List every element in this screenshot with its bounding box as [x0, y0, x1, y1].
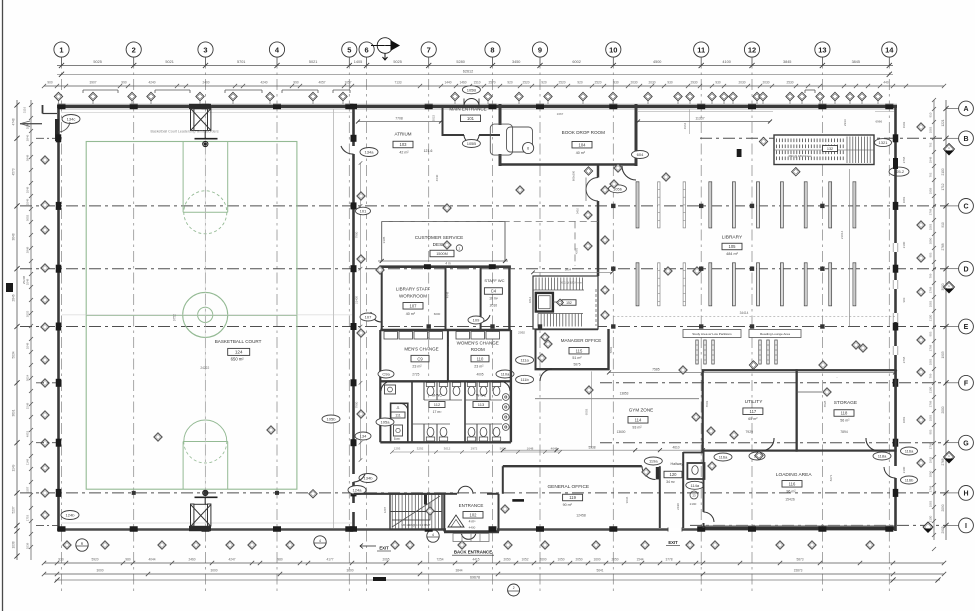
svg-text:111: 111	[395, 414, 400, 418]
svg-text:BACK ENTRANCE: BACK ENTRANCE	[454, 550, 492, 555]
svg-text:1712: 1712	[941, 183, 945, 190]
loading right door	[894, 466, 897, 478]
svg-text:3024: 3024	[26, 374, 30, 381]
svg-text:5021: 5021	[309, 60, 317, 64]
svg-text:2065: 2065	[382, 557, 389, 561]
svg-text:3012: 3012	[444, 447, 451, 451]
customer service desk outline	[382, 220, 505, 222]
svg-text:5701: 5701	[237, 60, 245, 64]
back entrance double door	[461, 532, 469, 540]
svg-text:7133: 7133	[394, 81, 401, 85]
svg-text:BOOK DROP ROOM: BOOK DROP ROOM	[562, 130, 605, 135]
svg-text:-: -	[837, 375, 838, 379]
outer wall top	[57, 105, 897, 108]
svg-text:1293: 1293	[394, 447, 401, 451]
svg-text:115: 115	[576, 348, 583, 353]
svg-text:H: H	[963, 491, 968, 498]
svg-text:2333: 2333	[843, 119, 847, 126]
grid bubbles top	[54, 42, 69, 57]
svg-text:4100: 4100	[722, 60, 730, 64]
svg-text:ATRIUM: ATRIUM	[395, 132, 412, 137]
svg-text:23 m²: 23 m²	[412, 365, 422, 369]
svg-text:112: 112	[434, 402, 441, 407]
svg-text:7708: 7708	[395, 116, 403, 120]
svg-text:105: 105	[729, 244, 737, 249]
svg-text:1903: 1903	[941, 351, 945, 358]
svg-text:2030: 2030	[648, 81, 655, 85]
entrance inner double door	[458, 486, 466, 494]
bottom wall exit door gap	[668, 528, 682, 532]
general office top wall	[503, 465, 642, 467]
hallway washroom	[687, 463, 704, 479]
svg-text:980: 980	[277, 557, 283, 561]
svg-text:UP 18R @ 174 2 RMT: UP 18R @ 174 2 RMT	[402, 523, 431, 527]
svg-text:2050: 2050	[611, 557, 618, 561]
svg-text:5 m²: 5 m²	[394, 437, 400, 441]
court center line	[86, 314, 297, 316]
svg-text:40 m²: 40 m²	[406, 312, 416, 316]
svg-text:10 m²: 10 m²	[489, 297, 499, 301]
svg-text:2846: 2846	[12, 294, 16, 301]
svg-text:920: 920	[577, 81, 583, 85]
svg-text:1148: 1148	[26, 459, 30, 466]
svg-text:MAIN ENTRANCE: MAIN ENTRANCE	[449, 107, 486, 112]
atrium-library divider wall x598	[597, 165, 600, 178]
svg-text:Basketball Court Leadership wh: Basketball Court Leadership white Border…	[151, 130, 219, 134]
svg-text:STAFF WC: STAFF WC	[484, 278, 504, 283]
svg-text:2100: 2100	[941, 168, 945, 175]
svg-text:1544: 1544	[636, 557, 643, 561]
svg-text:1510: 1510	[473, 81, 480, 85]
svg-text:5538: 5538	[588, 445, 595, 449]
hallway	[682, 452, 684, 528]
svg-text:103: 103	[400, 142, 408, 147]
svg-text:990: 990	[121, 81, 127, 85]
svg-text:13: 13	[818, 45, 826, 54]
svg-text:3848: 3848	[26, 154, 30, 161]
svg-text:93 m²: 93 m²	[632, 426, 642, 430]
svg-text:8271: 8271	[829, 474, 833, 481]
outer wall left	[57, 105, 60, 531]
svg-text:980: 980	[125, 557, 131, 561]
svg-text:40 m²: 40 m²	[576, 151, 586, 155]
svg-text:4964: 4964	[683, 122, 687, 129]
svg-text:2050: 2050	[503, 557, 510, 561]
svg-text:124b: 124b	[66, 513, 76, 518]
svg-text:6503: 6503	[705, 400, 709, 407]
svg-text:23: 23	[692, 494, 696, 498]
manager office diamonds	[541, 333, 549, 341]
svg-text:1082: 1082	[902, 416, 906, 423]
svg-text:G: G	[963, 440, 969, 447]
column symbols bottom wall	[58, 526, 66, 532]
dim line 7585	[609, 371, 895, 373]
womens wc stalls	[476, 381, 478, 400]
svg-text:5025: 5025	[93, 60, 101, 64]
svg-text:UTILITY: UTILITY	[745, 399, 764, 405]
svg-text:116: 116	[789, 482, 796, 487]
book drop interior bins	[490, 124, 512, 155]
interior grid intersection blobs	[427, 324, 431, 328]
svg-text:3395: 3395	[382, 236, 386, 243]
sheet border line left	[2, 0, 4, 611]
svg-text:2030: 2030	[630, 81, 637, 85]
svg-text:111b: 111b	[520, 377, 529, 382]
svg-text:9: 9	[538, 45, 542, 54]
diamonds row above utility	[692, 413, 700, 421]
svg-text:34 m²: 34 m²	[666, 480, 676, 484]
svg-text:1082: 1082	[929, 300, 933, 307]
svg-text:69678: 69678	[470, 576, 480, 580]
svg-text:J1: J1	[396, 406, 400, 410]
utility diamonds	[707, 427, 715, 435]
hoop roof beam bottom	[189, 526, 211, 531]
svg-text:152: 152	[566, 301, 572, 305]
vertical dim line x591	[591, 371, 593, 448]
column symbols top wall	[58, 104, 66, 110]
black table general office	[512, 499, 524, 502]
svg-text:4648: 4648	[446, 291, 450, 298]
svg-text:1149: 1149	[12, 464, 16, 471]
svg-text:107: 107	[365, 315, 372, 320]
svg-text:2520: 2520	[558, 81, 565, 85]
svg-text:WORKROOM: WORKROOM	[399, 293, 427, 298]
svg-text:110a: 110a	[501, 372, 510, 377]
svg-text:3648: 3648	[12, 233, 16, 240]
basketball hoop top	[191, 109, 194, 131]
svg-text:2725: 2725	[412, 373, 419, 377]
svg-text:D: D	[963, 266, 968, 273]
court key bottom	[182, 442, 184, 490]
bottom total line	[55, 579, 940, 581]
divider wall diamonds/texts	[584, 211, 592, 219]
svg-text:Hallway: Hallway	[671, 462, 684, 466]
mens change room	[379, 330, 381, 442]
court key top	[182, 142, 184, 213]
svg-text:7254: 7254	[436, 557, 443, 561]
svg-text:440: 440	[883, 81, 889, 85]
svg-text:930: 930	[715, 81, 721, 85]
svg-text:2092: 2092	[518, 330, 525, 334]
svg-text:EXIT: EXIT	[668, 540, 678, 545]
svg-text:910: 910	[941, 222, 945, 228]
left black mark	[6, 283, 13, 292]
staff wc	[480, 267, 482, 330]
svg-text:5237: 5237	[12, 506, 16, 513]
svg-text:1057: 1057	[344, 81, 351, 85]
svg-text:2460: 2460	[188, 557, 195, 561]
gym zone partition line	[535, 398, 699, 400]
svg-text:C9: C9	[417, 356, 423, 361]
svg-text:24222: 24222	[200, 366, 209, 370]
svg-text:930: 930	[58, 557, 64, 561]
svg-text:5873: 5873	[796, 557, 803, 561]
svg-text:2848: 2848	[26, 246, 30, 253]
H-line diamonds centre	[642, 468, 650, 476]
svg-text:903: 903	[929, 429, 933, 434]
dim line 5538/4610	[503, 449, 703, 451]
right wall window diamonds	[917, 123, 925, 131]
svg-text:ENTRANCE: ENTRANCE	[459, 503, 484, 508]
svg-text:2: 2	[513, 586, 515, 590]
svg-text:104: 104	[579, 142, 587, 147]
svg-text:W-WC: W-WC	[476, 394, 486, 398]
svg-text:124: 124	[235, 350, 243, 355]
svg-text:BASKETBALL COURT: BASKETBALL COURT	[215, 339, 262, 344]
library shelves solid	[636, 182, 639, 228]
bottom dimension chain 2	[44, 573, 944, 575]
library interior diamonds	[662, 173, 670, 181]
svg-text:96 m²: 96 m²	[786, 489, 796, 493]
svg-text:762: 762	[929, 172, 933, 177]
svg-text:107: 107	[410, 304, 418, 309]
svg-text:C4: C4	[491, 289, 497, 294]
svg-text:1958: 1958	[929, 187, 933, 194]
svg-text:3611 @ 180.6 mm: 3611 @ 180.6 mm	[560, 281, 583, 285]
library staff workroom	[381, 267, 383, 330]
bottom section circle	[508, 584, 520, 596]
svg-text:5034: 5034	[12, 351, 16, 358]
svg-text:1048: 1048	[26, 342, 30, 349]
svg-text:2768: 2768	[929, 442, 933, 449]
right dimension chain inner	[933, 100, 935, 540]
svg-text:Reading Lounge Area: Reading Lounge Area	[760, 332, 790, 336]
svg-text:769: 769	[929, 273, 933, 278]
main entrance vestibule walls	[442, 106, 444, 136]
svg-text:4044: 4044	[148, 557, 155, 561]
svg-text:5802: 5802	[609, 346, 613, 353]
elevator shaft	[536, 293, 553, 312]
hoop roof beam top	[189, 104, 211, 109]
svg-text:13853: 13853	[620, 392, 629, 396]
svg-text:1948: 1948	[929, 156, 933, 163]
svg-text:101: 101	[467, 116, 475, 121]
svg-text:2972: 2972	[471, 447, 478, 451]
svg-text:2025: 2025	[26, 310, 30, 317]
svg-text:23 m²: 23 m²	[474, 365, 484, 369]
svg-text:762: 762	[929, 142, 933, 147]
utility/storage door arcs	[762, 438, 774, 451]
svg-text:5207: 5207	[26, 486, 30, 493]
svg-text:1: 1	[384, 45, 386, 49]
svg-text:WOMEN'S CHANGE: WOMEN'S CHANGE	[457, 341, 499, 346]
svg-text:2930: 2930	[690, 81, 697, 85]
svg-text:2190: 2190	[690, 502, 697, 506]
bottom stair	[390, 494, 442, 529]
svg-text:2400: 2400	[202, 81, 209, 85]
desk dimension line	[378, 260, 508, 262]
svg-text:7929: 7929	[745, 430, 753, 434]
svg-text:2768: 2768	[929, 485, 933, 492]
atrium dimension	[358, 121, 441, 123]
book drop room walls	[499, 104, 502, 125]
mens wc stalls	[411, 381, 413, 442]
svg-text:STORAGE: STORAGE	[834, 400, 857, 406]
svg-text:119: 119	[569, 495, 576, 500]
gym inner edge line	[333, 109, 335, 528]
svg-text:13600: 13600	[617, 430, 626, 434]
gym right wall columns	[351, 135, 357, 142]
svg-text:600x300: 600x300	[572, 170, 576, 181]
svg-text:1082: 1082	[929, 223, 933, 230]
svg-text:1297: 1297	[383, 506, 387, 513]
svg-text:4240: 4240	[260, 81, 267, 85]
grid centerlines horizontal	[700, 137, 946, 139]
court centre guide lines	[204, 113, 206, 528]
svg-text:4500: 4500	[653, 60, 661, 64]
svg-text:6000: 6000	[434, 312, 441, 316]
svg-text:1600: 1600	[593, 557, 600, 561]
svg-text:2000: 2000	[941, 406, 945, 413]
change rooms top wall + lockers	[380, 329, 511, 331]
svg-text:GYM ZONE: GYM ZONE	[629, 408, 654, 413]
outer wall bottom mid	[497, 528, 705, 530]
grid bubbles right	[959, 101, 974, 116]
svg-text:M-WC: M-WC	[432, 394, 442, 398]
svg-text:3450: 3450	[512, 60, 520, 64]
top wall type diamonds	[54, 92, 62, 100]
svg-text:3: 3	[203, 45, 207, 54]
svg-text:116a: 116a	[719, 455, 728, 460]
svg-text:Study Area w/ Low Partitions: Study Area w/ Low Partitions	[692, 332, 732, 336]
svg-text:124a: 124a	[353, 488, 363, 493]
svg-text:C9a: C9a	[382, 372, 390, 377]
svg-text:3292: 3292	[417, 447, 424, 451]
column symbols right wall	[893, 134, 899, 142]
svg-text:14: 14	[885, 45, 894, 54]
svg-text:21400: 21400	[355, 296, 359, 304]
mens wc lower stalls	[423, 424, 425, 442]
svg-text:2846: 2846	[26, 134, 30, 141]
gym doors arcs	[341, 146, 354, 154]
gym right wall	[352, 105, 355, 531]
svg-text:930: 930	[613, 81, 619, 85]
svg-text:1082: 1082	[929, 414, 933, 421]
divider mens/womens	[464, 381, 466, 442]
svg-text:E: E	[964, 324, 969, 331]
entrance room 102	[443, 494, 445, 532]
svg-text:1814: 1814	[528, 296, 532, 303]
svg-text:903: 903	[929, 252, 933, 257]
svg-text:2768: 2768	[902, 356, 906, 363]
svg-text:2050: 2050	[575, 557, 582, 561]
svg-text:2520: 2520	[522, 81, 529, 85]
svg-text:1460: 1460	[459, 81, 466, 85]
svg-text:2600: 2600	[539, 557, 546, 561]
svg-text:A: A	[963, 106, 968, 113]
svg-text:2768: 2768	[902, 156, 906, 163]
svg-text:2570: 2570	[488, 81, 495, 85]
svg-text:2768: 2768	[941, 458, 945, 465]
svg-text:903: 903	[902, 297, 906, 302]
top dimension line 1	[57, 65, 893, 67]
svg-text:17 m²: 17 m²	[433, 410, 443, 414]
svg-text:6002: 6002	[572, 60, 580, 64]
svg-text:113: 113	[478, 402, 485, 407]
svg-text:910: 910	[929, 112, 933, 117]
main entrance double door top	[464, 99, 472, 107]
svg-text:1082: 1082	[929, 500, 933, 507]
study shelves	[696, 340, 698, 364]
wall between change and wc	[380, 380, 511, 382]
svg-text:B: B	[963, 136, 968, 143]
basketball hoop bottom	[195, 496, 218, 498]
svg-text:5804: 5804	[565, 267, 572, 271]
svg-text:3410: 3410	[576, 207, 580, 214]
bottom diamonds	[63, 541, 71, 549]
svg-text:4: 4	[432, 533, 434, 537]
svg-text:42 m²: 42 m²	[399, 151, 409, 155]
svg-text:4610: 4610	[672, 445, 679, 449]
svg-text:5875: 5875	[573, 363, 580, 367]
svg-text:930: 930	[667, 81, 673, 85]
wall above stair	[354, 493, 446, 495]
svg-text:11337: 11337	[695, 116, 704, 120]
svg-text:1440: 1440	[444, 81, 451, 85]
showers	[502, 394, 509, 401]
double door on divider wall	[586, 178, 598, 190]
column symbols left wall	[56, 134, 62, 142]
svg-text:EXIT: EXIT	[379, 546, 389, 551]
svg-text:1082: 1082	[929, 358, 933, 365]
svg-text:990: 990	[293, 81, 299, 85]
svg-text:650 m²: 650 m²	[231, 357, 245, 362]
svg-text:5021: 5021	[165, 60, 173, 64]
svg-text:118a: 118a	[878, 454, 887, 459]
svg-text:119a: 119a	[649, 459, 658, 464]
svg-text:2768: 2768	[941, 243, 945, 250]
svg-text:1548: 1548	[26, 402, 30, 409]
svg-text:1321: 1321	[879, 140, 889, 145]
svg-text:11: 11	[697, 45, 705, 54]
svg-text:4240: 4240	[148, 81, 155, 85]
svg-text:F: F	[964, 380, 969, 387]
svg-text:6: 6	[365, 45, 369, 54]
small black bar near grid 12	[737, 149, 742, 157]
svg-text:109: 109	[473, 318, 480, 323]
svg-text:4 m²: 4 m²	[469, 520, 477, 524]
svg-text:62612: 62612	[463, 69, 474, 73]
svg-text:5025: 5025	[393, 60, 401, 64]
svg-text:2768: 2768	[929, 286, 933, 293]
loading dock bottom wall	[704, 526, 895, 530]
svg-text:6503: 6503	[585, 408, 589, 415]
vestibule sink	[385, 385, 396, 394]
svg-text:10: 10	[609, 45, 617, 54]
svg-text:ROOM: ROOM	[471, 347, 485, 352]
stair + elevator block	[533, 276, 598, 329]
svg-text:105B: 105B	[467, 87, 477, 92]
svg-text:4247: 4247	[228, 557, 235, 561]
svg-text:3845: 3845	[783, 60, 791, 64]
svg-text:116b: 116b	[905, 478, 914, 483]
svg-text:12458: 12458	[576, 514, 586, 518]
svg-text:2768: 2768	[929, 400, 933, 407]
svg-text:117: 117	[750, 409, 757, 414]
svg-text:36R @ 180 Dinner: 36R @ 180 Dinner	[788, 154, 811, 158]
court centre circle	[183, 292, 228, 337]
svg-text:3907: 3907	[89, 81, 96, 85]
corridor dim chain x360	[360, 163, 362, 460]
svg-text:8: 8	[490, 45, 494, 54]
svg-text:LOADING AREA: LOADING AREA	[776, 472, 813, 478]
svg-text:4748: 4748	[12, 118, 16, 125]
top-left exit door jog	[42, 105, 44, 114]
svg-text:2100: 2100	[902, 466, 906, 473]
svg-text:2190: 2190	[676, 503, 680, 510]
svg-text:12: 12	[748, 45, 756, 54]
svg-text:920: 920	[541, 81, 547, 85]
